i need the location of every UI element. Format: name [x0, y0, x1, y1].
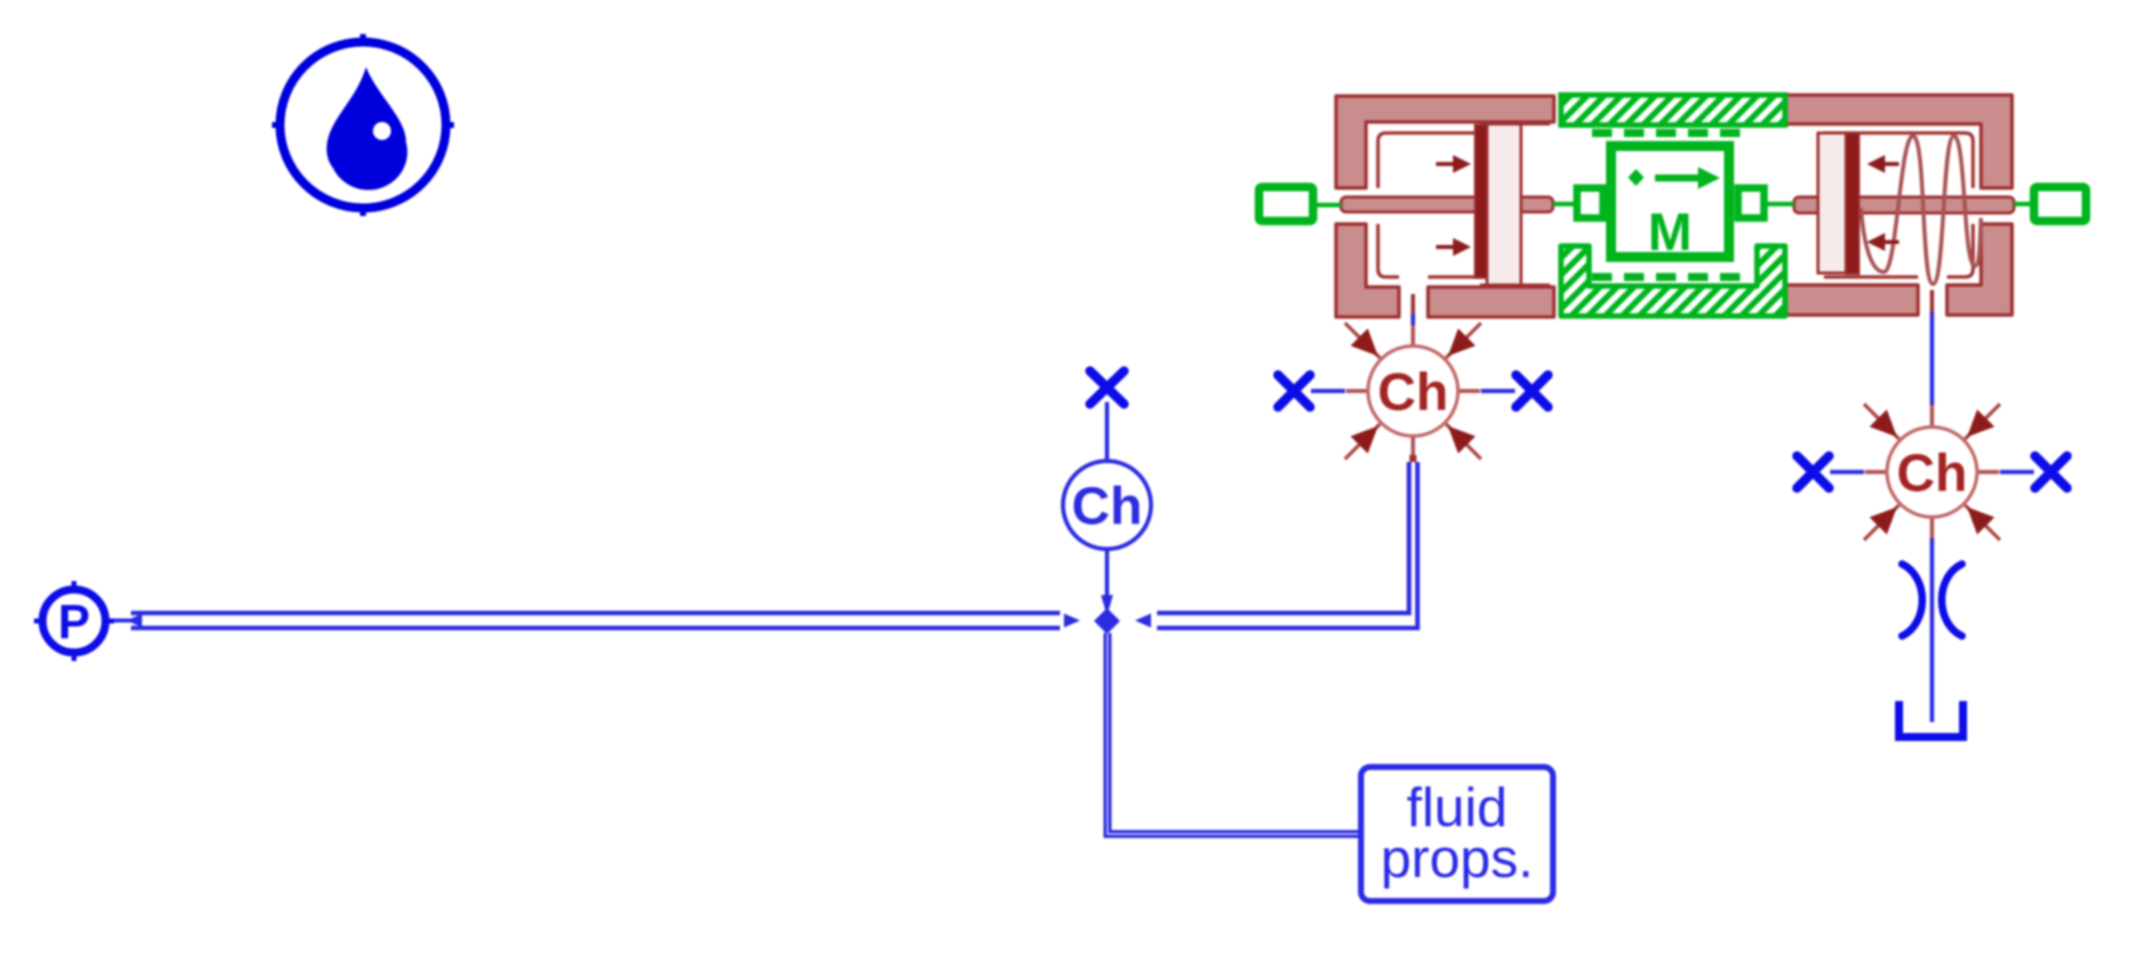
svg-text:P: P: [58, 596, 90, 649]
svg-text:props.: props.: [1381, 827, 1534, 889]
svg-text:M: M: [1648, 203, 1692, 262]
svg-text:Ch: Ch: [1072, 477, 1143, 536]
